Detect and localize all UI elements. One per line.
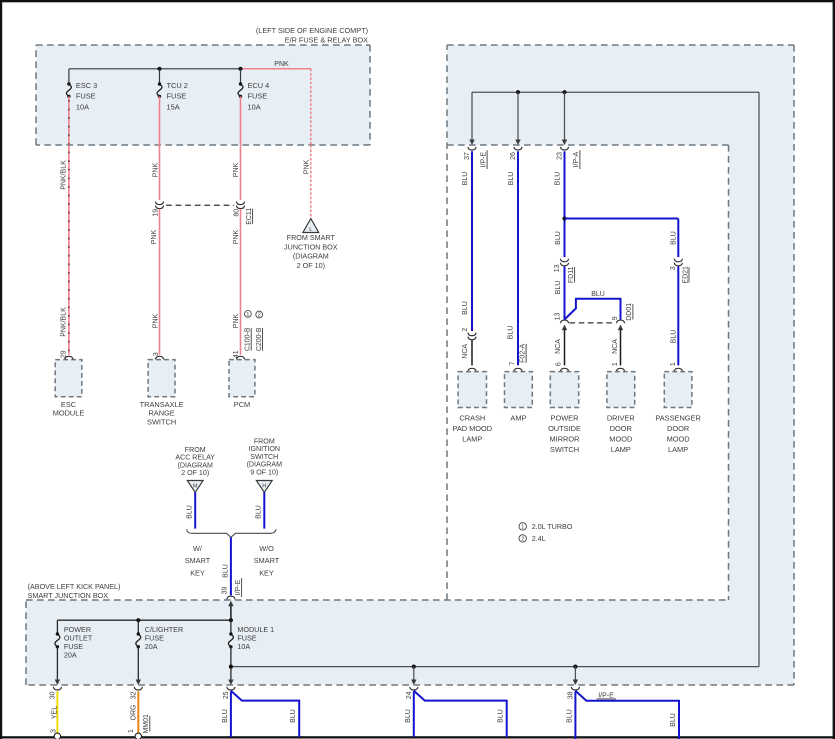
svg-text:C200-B: C200-B bbox=[256, 327, 263, 351]
svg-text:PNK/BLK: PNK/BLK bbox=[61, 307, 68, 337]
svg-text:ESC: ESC bbox=[61, 400, 77, 409]
svg-text:26: 26 bbox=[510, 152, 517, 160]
svg-text:NCA: NCA bbox=[612, 339, 619, 354]
svg-text:PNK/BLK: PNK/BLK bbox=[61, 160, 68, 190]
svg-text:29: 29 bbox=[61, 350, 68, 358]
svg-text:41: 41 bbox=[233, 350, 240, 358]
svg-text:SMART: SMART bbox=[254, 556, 280, 565]
svg-text:NCA: NCA bbox=[555, 339, 562, 354]
svg-text:PNK: PNK bbox=[151, 229, 158, 244]
svg-text:6: 6 bbox=[556, 362, 563, 366]
svg-text:1: 1 bbox=[246, 312, 249, 318]
svg-text:MODULE: MODULE bbox=[53, 409, 85, 418]
svg-text:LAMP: LAMP bbox=[462, 434, 482, 443]
svg-text:BLU: BLU bbox=[670, 231, 677, 245]
svg-text:LAMP: LAMP bbox=[668, 445, 688, 454]
svg-text:BLU: BLU bbox=[555, 231, 562, 245]
svg-text:2.4L: 2.4L bbox=[532, 534, 546, 543]
svg-text:MM01: MM01 bbox=[143, 714, 150, 734]
svg-text:BLU: BLU bbox=[290, 709, 297, 723]
svg-text:BLU: BLU bbox=[222, 709, 229, 723]
svg-text:7: 7 bbox=[509, 362, 516, 366]
svg-text:I/P-A: I/P-A bbox=[573, 151, 580, 167]
svg-text:BLU: BLU bbox=[498, 709, 505, 723]
svg-text:DOOR: DOOR bbox=[610, 424, 632, 433]
svg-text:OUTSIDE: OUTSIDE bbox=[548, 424, 581, 433]
svg-text:MOOD: MOOD bbox=[667, 434, 690, 443]
svg-text:F02-A: F02-A bbox=[519, 343, 526, 362]
svg-text:(DIAGRAM: (DIAGRAM bbox=[293, 252, 329, 261]
svg-text:DD01: DD01 bbox=[626, 303, 633, 321]
svg-text:13: 13 bbox=[554, 264, 561, 272]
svg-text:25: 25 bbox=[223, 691, 230, 699]
svg-text:15A: 15A bbox=[167, 102, 180, 111]
svg-text:SMART: SMART bbox=[185, 556, 211, 565]
svg-text:BLU: BLU bbox=[508, 172, 515, 186]
svg-text:20A: 20A bbox=[64, 650, 77, 659]
svg-text:ACC RELAY: ACC RELAY bbox=[175, 454, 215, 462]
svg-text:CRASH: CRASH bbox=[459, 414, 485, 423]
svg-text:PNK: PNK bbox=[233, 313, 240, 328]
svg-text:M: M bbox=[193, 484, 198, 490]
svg-text:TRANSAXLE: TRANSAXLE bbox=[140, 400, 184, 409]
svg-text:2 OF 10): 2 OF 10) bbox=[181, 469, 209, 477]
svg-text:2: 2 bbox=[258, 313, 261, 319]
svg-text:BLU: BLU bbox=[256, 505, 263, 519]
svg-text:2: 2 bbox=[521, 536, 524, 542]
svg-text:BLU: BLU bbox=[462, 301, 469, 315]
svg-text:BLU: BLU bbox=[555, 281, 562, 295]
svg-text:39: 39 bbox=[222, 587, 229, 595]
svg-text:FROM SMART: FROM SMART bbox=[287, 233, 336, 242]
svg-text:C100-B: C100-B bbox=[245, 327, 252, 351]
svg-text:10A: 10A bbox=[248, 102, 261, 111]
svg-text:10A: 10A bbox=[76, 102, 89, 111]
svg-text:FUSE: FUSE bbox=[167, 92, 187, 101]
svg-text:(ABOVE LEFT KICK PANEL): (ABOVE LEFT KICK PANEL) bbox=[28, 582, 121, 591]
svg-text:SWITCH: SWITCH bbox=[147, 417, 176, 426]
svg-text:JUNCTION BOX: JUNCTION BOX bbox=[284, 242, 338, 251]
svg-text:RANGE: RANGE bbox=[148, 409, 174, 418]
svg-text:I/P-E: I/P-E bbox=[480, 151, 487, 167]
svg-text:DRIVER: DRIVER bbox=[607, 414, 635, 423]
svg-text:80: 80 bbox=[233, 209, 240, 217]
svg-text:PNK: PNK bbox=[304, 159, 311, 174]
svg-text:KEY: KEY bbox=[190, 568, 205, 577]
svg-text:BLU: BLU bbox=[405, 709, 412, 723]
svg-text:MIRROR: MIRROR bbox=[550, 434, 580, 443]
svg-text:FROM: FROM bbox=[254, 437, 275, 445]
svg-text:3: 3 bbox=[51, 729, 58, 733]
svg-text:TCU 2: TCU 2 bbox=[167, 81, 188, 90]
svg-text:38: 38 bbox=[567, 691, 574, 699]
svg-text:PNK: PNK bbox=[152, 162, 159, 177]
svg-text:NCA: NCA bbox=[462, 344, 469, 359]
svg-text:MOOD: MOOD bbox=[609, 434, 632, 443]
svg-text:DOOR: DOOR bbox=[667, 424, 689, 433]
svg-text:9 OF 10): 9 OF 10) bbox=[250, 468, 278, 476]
svg-text:37: 37 bbox=[464, 152, 471, 160]
svg-text:2 OF 10): 2 OF 10) bbox=[297, 261, 325, 270]
svg-text:YEL: YEL bbox=[52, 706, 59, 719]
svg-text:BLU: BLU bbox=[591, 291, 605, 298]
svg-text:32: 32 bbox=[130, 691, 137, 699]
svg-text:L: L bbox=[309, 227, 312, 233]
svg-text:2: 2 bbox=[462, 328, 469, 332]
svg-text:BLU: BLU bbox=[554, 172, 561, 186]
svg-text:BLU: BLU bbox=[567, 709, 574, 723]
svg-text:PNK: PNK bbox=[233, 229, 240, 244]
svg-text:30: 30 bbox=[49, 691, 56, 699]
svg-text:H: H bbox=[262, 484, 266, 490]
svg-text:BLU: BLU bbox=[462, 172, 469, 186]
svg-text:PAD MOOD: PAD MOOD bbox=[452, 424, 492, 433]
svg-text:BLU: BLU bbox=[670, 713, 677, 727]
svg-text:3: 3 bbox=[670, 266, 677, 270]
svg-text:BLU: BLU bbox=[670, 330, 677, 344]
svg-text:2.0L TURBO: 2.0L TURBO bbox=[532, 522, 573, 531]
svg-text:PCM: PCM bbox=[234, 400, 250, 409]
svg-text:LAMP: LAMP bbox=[611, 445, 631, 454]
svg-text:1: 1 bbox=[670, 362, 677, 366]
svg-text:(DIAGRAM: (DIAGRAM bbox=[247, 461, 283, 469]
svg-text:FUSE: FUSE bbox=[76, 92, 96, 101]
svg-text:PNK: PNK bbox=[274, 61, 289, 68]
svg-text:W/: W/ bbox=[193, 544, 203, 553]
svg-text:I/P-E: I/P-E bbox=[235, 579, 242, 595]
svg-text:BLU: BLU bbox=[507, 326, 514, 340]
svg-text:PNK: PNK bbox=[233, 162, 240, 177]
svg-text:(LEFT SIDE OF ENGINE COMPT): (LEFT SIDE OF ENGINE COMPT) bbox=[256, 26, 368, 35]
svg-text:E/R FUSE & RELAY BOX: E/R FUSE & RELAY BOX bbox=[285, 36, 368, 45]
svg-text:AMP: AMP bbox=[510, 414, 526, 423]
svg-text:SWITCH: SWITCH bbox=[550, 445, 579, 454]
svg-text:ED21: ED21 bbox=[682, 266, 689, 284]
svg-text:BLU: BLU bbox=[187, 505, 194, 519]
svg-text:ECU 4: ECU 4 bbox=[248, 81, 270, 90]
svg-text:20A: 20A bbox=[145, 642, 158, 651]
svg-text:PNK: PNK bbox=[152, 313, 159, 328]
svg-text:PASSENGER: PASSENGER bbox=[655, 414, 700, 423]
svg-text:1: 1 bbox=[521, 524, 524, 530]
svg-text:3: 3 bbox=[153, 352, 160, 356]
svg-text:FUSE: FUSE bbox=[248, 92, 268, 101]
svg-text:23: 23 bbox=[556, 152, 563, 160]
svg-text:19: 19 bbox=[153, 209, 160, 217]
svg-text:1: 1 bbox=[128, 729, 135, 733]
svg-text:13: 13 bbox=[555, 313, 562, 321]
svg-text:24: 24 bbox=[406, 691, 413, 699]
svg-text:POWER: POWER bbox=[551, 414, 579, 423]
svg-text:10A: 10A bbox=[237, 642, 250, 651]
svg-text:SMART JUNCTION BOX: SMART JUNCTION BOX bbox=[28, 591, 109, 600]
svg-text:W/O: W/O bbox=[259, 544, 274, 553]
svg-text:I/P-E: I/P-E bbox=[598, 692, 614, 699]
svg-text:FD11: FD11 bbox=[568, 266, 575, 283]
svg-text:EC11: EC11 bbox=[246, 208, 253, 225]
svg-text:KEY: KEY bbox=[259, 568, 274, 577]
svg-text:ESC 3: ESC 3 bbox=[76, 81, 97, 90]
svg-text:1: 1 bbox=[612, 362, 619, 366]
svg-text:9: 9 bbox=[612, 316, 619, 320]
svg-text:BLU: BLU bbox=[222, 564, 229, 578]
svg-text:ORG: ORG bbox=[130, 705, 137, 721]
